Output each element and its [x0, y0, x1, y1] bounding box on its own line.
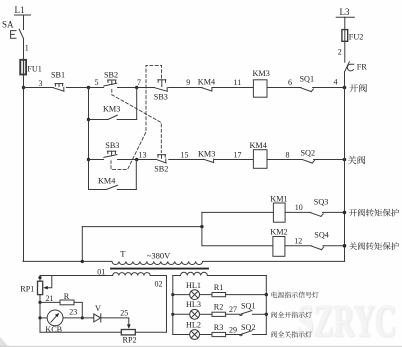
lamp panel left rail [172, 276, 174, 335]
svg-text:12: 12 [294, 236, 302, 245]
resistor R1 [212, 293, 226, 297]
node bottom line junction [81, 260, 84, 263]
svg-text:5: 5 [95, 78, 99, 87]
node right rail row1 [265, 293, 268, 296]
wire SQ4 to bus [323, 245, 345, 247]
svg-text:27: 27 [229, 305, 237, 314]
node at left bus row1 [22, 86, 25, 89]
svg-text:21: 21 [46, 294, 54, 303]
svg-text:RP2: RP2 [123, 336, 137, 345]
dashed mechanical link SB3 [111, 65, 162, 169]
svg-text:9: 9 [186, 78, 190, 87]
svg-text:6: 6 [288, 78, 292, 87]
label close torque protection [349, 242, 399, 250]
wire HL1 to R1 [200, 294, 213, 296]
bottom line right segment [203, 260, 345, 262]
node RP1 top junction [38, 276, 41, 279]
limit switch SQ2 (NO lamp) [240, 331, 252, 336]
svg-text:SB1: SB1 [51, 71, 65, 80]
wire SQ1 to bus [313, 87, 345, 89]
fuse FU1 wire through [23, 61, 25, 88]
pushbutton SB2 (NO) [104, 80, 117, 86]
svg-text:SB3: SB3 [105, 141, 119, 150]
transformer primary winding [112, 261, 203, 264]
corner smudge [0, 337, 9, 347]
svg-text:HL2: HL2 [186, 321, 201, 330]
node right rail row2 [265, 313, 268, 316]
label close-valve [348, 156, 366, 165]
wire 01 right lead [150, 275, 166, 277]
resistor R [60, 300, 74, 305]
node 21 junction [38, 301, 41, 304]
svg-text:KM4: KM4 [250, 141, 267, 150]
node SQ3 bus junction [343, 211, 347, 215]
wire RP1 to node21 [39, 295, 41, 303]
wire 01 left lead [40, 275, 113, 277]
wire branch to SB3 lower [89, 159, 104, 161]
rheostat RP1 wiper [45, 276, 52, 288]
watermark SZRYC [297, 295, 397, 347]
resistor R3 [212, 332, 226, 336]
contact KM4 (NC interlock) [202, 88, 212, 92]
wire HL3 to R2 [200, 313, 213, 315]
svg-text:KM3: KM3 [103, 105, 120, 114]
node KM feed junction [200, 225, 203, 228]
wire 02 right lead [207, 275, 266, 277]
coil KM2 [273, 237, 285, 257]
wire SB3 lower to node13 [118, 159, 156, 161]
wire KM feed branch vertical [201, 212, 203, 245]
wire SB3 to KM4 contact [169, 87, 203, 89]
switch SA handle [11, 31, 16, 39]
wire SQ2 to bus [314, 159, 345, 161]
svg-text:SA: SA [2, 20, 14, 30]
rheostat RP1 wiper arrowhead [43, 286, 48, 290]
svg-text:SQ4: SQ4 [314, 231, 329, 240]
limit switch SQ3 (NC) [311, 213, 323, 217]
svg-text:SQ1: SQ1 [300, 75, 315, 84]
wire KM4 self-hold up to node13 [135, 160, 137, 190]
svg-text:1: 1 [25, 44, 29, 53]
wire to coil KM2 [202, 245, 273, 247]
fuse FU1 [20, 60, 26, 75]
terminal L3 bar [336, 16, 354, 18]
wire row2 left [173, 313, 190, 315]
svg-text:HL1: HL1 [186, 281, 201, 290]
terminal L1 bar [15, 14, 31, 16]
wire R3 to SQ2 [226, 334, 241, 336]
svg-text:KM4: KM4 [98, 177, 115, 186]
wire node21 to R [40, 301, 60, 303]
wire SQ3 to bus [322, 211, 344, 213]
wire R2 to SQ1 [226, 313, 241, 315]
label open torque protection [349, 209, 399, 217]
svg-text:HL3: HL3 [186, 300, 201, 309]
svg-text:SB3: SB3 [154, 93, 168, 102]
lamp panel right rail [265, 276, 267, 335]
svg-text:KM3: KM3 [198, 150, 215, 159]
wire 02 left lead [173, 275, 181, 277]
wire KM3 self-hold up to node7 [136, 88, 138, 120]
diode V cathode bar [100, 314, 102, 322]
svg-text:13: 13 [139, 151, 147, 160]
wire SB2 to node7 [118, 87, 155, 89]
pushbutton SB3 upper (NC) [155, 80, 167, 92]
limit switch SQ2 (NC) [302, 160, 314, 164]
node KCB left junction [38, 316, 41, 319]
svg-text:R1: R1 [214, 283, 224, 292]
resistor R2 [212, 312, 226, 316]
wire SA to FU1 [23, 39, 25, 60]
switch SA blade [19, 29, 23, 39]
branch wire node5 down [88, 88, 90, 190]
node KM3 parallel junction [87, 118, 90, 121]
fuse FU2 [342, 30, 348, 42]
wire to KCB [40, 317, 47, 319]
svg-text:L1: L1 [15, 5, 25, 15]
svg-text:23: 23 [69, 307, 77, 316]
svg-text:11: 11 [234, 78, 242, 87]
svg-text:V: V [95, 304, 101, 313]
fuse FU2 wire through [344, 31, 346, 63]
svg-text:SZRYC: SZRYC [297, 295, 396, 346]
pushbutton SB3 lower (NO) [104, 151, 117, 157]
wire R corner down [74, 302, 82, 318]
wire to coil KM1 [202, 211, 274, 213]
potentiometer RP2 [121, 330, 135, 335]
svg-text:FU1: FU1 [27, 65, 42, 74]
svg-text:SQ2: SQ2 [241, 323, 256, 332]
node 5 junction [87, 86, 90, 89]
label valve closed indicator lamp [271, 331, 312, 337]
node SQ4 bus junction [343, 244, 347, 248]
coil KM4 [253, 150, 267, 169]
node 13 junction [135, 158, 138, 161]
svg-text:29: 29 [229, 325, 237, 334]
right bus wire [344, 72, 346, 262]
svg-text:02: 02 [155, 279, 163, 288]
secondary winding 02 [181, 272, 208, 275]
wire L1 to SA [23, 15, 25, 30]
secondary winding 01 [113, 273, 151, 276]
contact KM3 (self-hold NO) [89, 115, 137, 119]
svg-text:KM4: KM4 [198, 77, 215, 86]
label power indicator lamp [272, 292, 319, 298]
contact KM4 (self-hold NO) [89, 185, 137, 189]
lamp HL2 [190, 330, 200, 340]
svg-text:SQ1: SQ1 [241, 302, 256, 311]
wire KM4 contact to coil KM3 [212, 87, 253, 89]
wire KM coils feed horizontal [82, 226, 202, 228]
wire coil KM3 to SQ1 [267, 87, 301, 89]
wire 01 lead corner to RP1 [39, 276, 41, 282]
wire KM3 contact to coil KM4 [214, 159, 253, 161]
node lamp rail row1 [171, 293, 174, 296]
label valve open indicator lamp [271, 312, 312, 318]
wire KCB to diode [63, 317, 94, 319]
contact KM3 (NC interlock) [204, 159, 214, 163]
wire row3 left [173, 334, 190, 336]
svg-text:KM3: KM3 [253, 69, 270, 78]
meter KCB needle arrowhead [55, 313, 59, 317]
wire 01 return rail [166, 276, 168, 333]
wire L3 to FU2 [344, 17, 346, 29]
wire SQ2 to right rail [252, 334, 266, 336]
thermal relay FR contact [345, 62, 354, 72]
wire KM coils feed left vertical [81, 227, 83, 262]
limit switch SQ1 (NC) [301, 88, 313, 92]
diode V [94, 314, 101, 322]
svg-text:SB2: SB2 [154, 165, 168, 174]
pushbutton SB1 (NC) [54, 84, 65, 92]
meter KCB needle [51, 315, 58, 323]
svg-text:SQ3: SQ3 [314, 198, 329, 207]
node 7 junction [135, 86, 138, 89]
svg-text:17: 17 [234, 151, 242, 160]
svg-text:R3: R3 [214, 323, 224, 332]
svg-text:4: 4 [334, 78, 338, 87]
node rung2 junction [87, 158, 90, 161]
svg-text:R2: R2 [214, 303, 224, 312]
bottom line left segment [23, 260, 112, 262]
svg-text:2: 2 [338, 48, 342, 57]
bottom edge scan line [0, 345, 402, 347]
svg-text:FR: FR [357, 63, 368, 72]
svg-text:L3: L3 [340, 7, 350, 17]
svg-text:SB2: SB2 [104, 71, 118, 80]
svg-text:3: 3 [39, 79, 43, 88]
svg-text:8: 8 [286, 151, 290, 160]
svg-text:FU2: FU2 [349, 33, 364, 42]
coil KM3 [253, 80, 267, 97]
pushbutton SB2 lower (NC) [156, 155, 166, 163]
rheostat RP1 [38, 281, 43, 294]
wire HL2 to R3 [200, 334, 213, 336]
svg-text:T: T [120, 248, 126, 258]
wire bottom rung left [40, 331, 121, 333]
svg-text:KM1: KM1 [270, 195, 287, 204]
node row1 bus junction [343, 86, 347, 90]
svg-text:SQ2: SQ2 [301, 149, 316, 158]
coil KM1 [273, 203, 285, 222]
node 23 junction [81, 316, 84, 319]
wire SB1 to node5 [67, 87, 104, 89]
wire RP2 to 01 rail [135, 331, 166, 333]
limit switch SQ1 (NO lamp) [240, 311, 252, 316]
lamp HL3 [190, 309, 200, 319]
transformer core [111, 268, 208, 270]
left bus wire [23, 88, 25, 262]
wire arrow into RP2 wiper [127, 324, 131, 328]
wire coil KM4 to SQ2 [267, 159, 302, 161]
wire coil KM1 to SQ3 [285, 211, 311, 213]
label open-valve [349, 84, 367, 93]
svg-text:RP1: RP1 [20, 284, 34, 293]
dashed mechanical link SB2 [112, 89, 162, 152]
svg-text:25: 25 [120, 309, 128, 318]
wire bus to SB1 [23, 87, 53, 89]
meter KCB [47, 310, 63, 326]
wire SB2 lower to KM3 contact [169, 159, 204, 161]
lamp HL1 [190, 290, 200, 300]
left meter rail [39, 302, 41, 332]
wire coil KM2 to SQ4 [285, 245, 311, 247]
wire row1 left [173, 294, 190, 296]
svg-text:7: 7 [137, 78, 141, 87]
node rung2 bus junction [343, 158, 347, 162]
limit switch SQ4 (NC) [312, 246, 324, 250]
svg-text:15: 15 [181, 151, 189, 160]
wire R1 to right rail [226, 294, 267, 296]
wire SQ1 to right rail [252, 313, 266, 315]
svg-text:~380V: ~380V [147, 251, 171, 261]
svg-text:KM2: KM2 [270, 227, 287, 236]
node lamp rail row2 [171, 313, 174, 316]
svg-text:10: 10 [295, 203, 303, 212]
wire diode to node25 [101, 318, 129, 325]
